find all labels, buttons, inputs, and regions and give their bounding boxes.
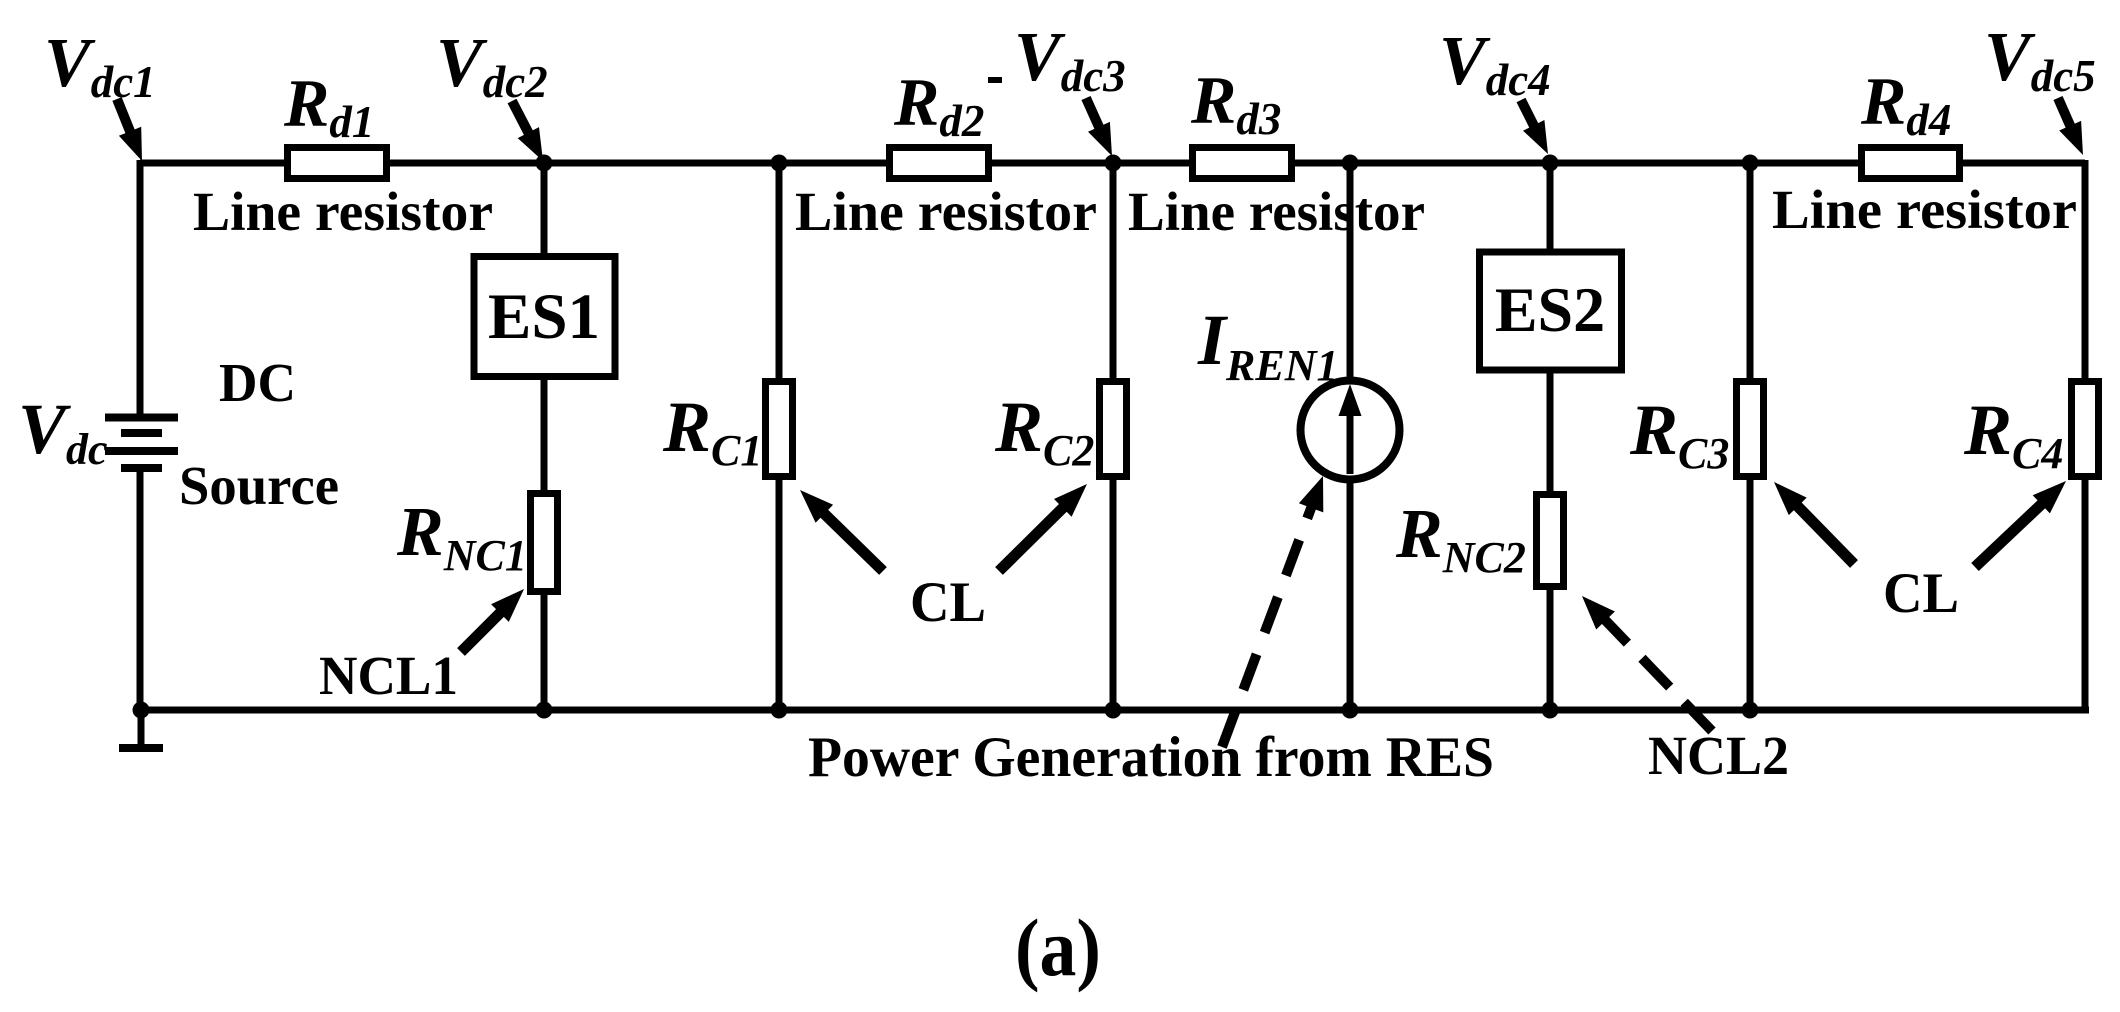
svg-text:Vdc4: Vdc4 xyxy=(1439,23,1551,105)
resistor Rd1 xyxy=(288,148,387,179)
node Vdc2 dot xyxy=(536,155,553,172)
wire branch RC1 xyxy=(776,163,783,710)
node dot top RC3 xyxy=(1742,155,1759,172)
ES2 box xyxy=(1480,252,1622,370)
svg-text:Rd2: Rd2 xyxy=(893,64,984,146)
node dot bottom RC3 xyxy=(1742,702,1759,719)
wire branch ES1/RNC1 xyxy=(541,163,548,710)
arrow CL to RC2 xyxy=(999,484,1087,571)
svg-text:RC3: RC3 xyxy=(1629,390,1729,478)
svg-text:Vdc: Vdc xyxy=(18,389,108,474)
current source IREN1 arrow xyxy=(1339,384,1362,474)
node dot top RC1 xyxy=(771,155,788,172)
resistor Rd3 xyxy=(1193,148,1292,179)
wire bottom rail xyxy=(137,707,2089,714)
wire right branch RC4 xyxy=(2082,160,2089,710)
resistor RNC1 xyxy=(531,494,558,592)
svg-text:RC4: RC4 xyxy=(1963,390,2063,478)
svg-text:ES1: ES1 xyxy=(488,281,600,353)
wire top rail xyxy=(140,160,2085,167)
svg-text:Power Generation from RES: Power Generation from RES xyxy=(808,726,1494,789)
ground xyxy=(119,710,163,748)
wire branch IREN1 xyxy=(1347,163,1354,710)
arrow to node Vdc5 xyxy=(2058,98,2083,155)
svg-text:(a): (a) xyxy=(1015,902,1101,993)
node dot bottom left xyxy=(133,702,150,719)
resistor Rd4 xyxy=(1862,148,1960,179)
svg-text:Rd3: Rd3 xyxy=(1190,62,1281,144)
svg-text:Vdc5: Vdc5 xyxy=(1984,19,2096,101)
wire branch RC2 xyxy=(1110,163,1117,710)
battery Vdc source xyxy=(105,418,178,469)
wire branch RC3 xyxy=(1747,163,1754,710)
resistor Rd2 xyxy=(890,148,989,179)
resistor RNC2 xyxy=(1537,495,1564,587)
svg-text:RNC1: RNC1 xyxy=(396,494,527,580)
arrow CL to RC1 xyxy=(800,490,883,571)
arrow NCL1 to RNC1 xyxy=(461,589,524,652)
svg-text:Vdc1: Vdc1 xyxy=(44,25,156,107)
svg-text:NCL2: NCL2 xyxy=(1648,725,1789,786)
ES1 box xyxy=(474,257,615,377)
svg-text:RNC2: RNC2 xyxy=(1395,496,1526,582)
wire branch ES2/RNC2 xyxy=(1547,163,1554,710)
dashed arrow NCL2 to RNC2 xyxy=(1582,596,1712,731)
svg-text:Line resistor: Line resistor xyxy=(795,181,1097,242)
svg-text:Rd1: Rd1 xyxy=(283,65,374,147)
arrow CL to RC4 xyxy=(1975,481,2066,567)
dash before Vdc3 xyxy=(988,77,1002,83)
current source IREN1 circle xyxy=(1301,381,1400,480)
svg-text:CL: CL xyxy=(1883,562,1959,625)
resistor RC4 xyxy=(2072,382,2099,477)
node dot bottom ES1 xyxy=(536,702,553,719)
node Vdc3 dot xyxy=(1105,155,1122,172)
svg-text:RC1: RC1 xyxy=(662,387,762,475)
svg-text:Vdc2: Vdc2 xyxy=(436,25,548,107)
svg-text:Line resistor: Line resistor xyxy=(1128,181,1425,242)
resistor RC2 xyxy=(1100,382,1127,477)
svg-text:NCL1: NCL1 xyxy=(319,645,458,706)
svg-text:Rd4: Rd4 xyxy=(1860,63,1951,145)
svg-text:DC: DC xyxy=(219,352,296,413)
wire left branch Vdc source xyxy=(137,160,144,710)
svg-text:Source: Source xyxy=(179,455,339,516)
node dot bottom RC2 xyxy=(1105,702,1122,719)
arrow to node Vdc3 xyxy=(1086,98,1112,156)
node dot bottom IREN1 xyxy=(1342,702,1359,719)
arrow to node Vdc1 xyxy=(117,99,142,161)
arrow to node Vdc4 xyxy=(1521,100,1548,154)
arrow CL to RC3 xyxy=(1774,482,1854,564)
svg-text:RC2: RC2 xyxy=(994,387,1094,475)
node dot bottom RC1 xyxy=(771,702,788,719)
node Vdc4 dot xyxy=(1542,155,1559,172)
resistor RC1 xyxy=(766,382,793,477)
svg-text:ES2: ES2 xyxy=(1495,274,1605,345)
resistor RC3 xyxy=(1737,382,1764,477)
svg-text:IREN1: IREN1 xyxy=(1197,300,1339,390)
svg-text:Line resistor: Line resistor xyxy=(193,181,493,242)
node dot top IREN1 xyxy=(1342,155,1359,172)
node dot bottom ES2 xyxy=(1542,702,1559,719)
dashed arrow RES to IREN1 xyxy=(1222,476,1323,747)
svg-text:Vdc3: Vdc3 xyxy=(1014,19,1126,101)
arrow to node Vdc2 xyxy=(512,101,543,161)
svg-text:CL: CL xyxy=(910,571,986,634)
svg-text:Line resistor: Line resistor xyxy=(1772,179,2077,240)
